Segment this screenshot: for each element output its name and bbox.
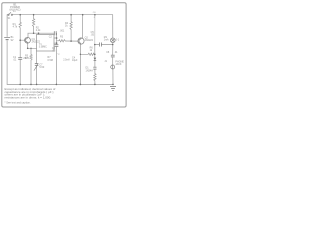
node: Q1 base [19, 39, 21, 41]
wire: Q1 base [20, 39, 24, 41]
node: rail R2 [33, 14, 35, 16]
svg-text:0.5M: 0.5M [48, 59, 53, 62]
wire: R3e emitter resistor column [30, 48, 32, 54]
svg-text:* See text and caption.: * See text and caption. [5, 100, 31, 104]
svg-text:4.7k: 4.7k [13, 26, 18, 29]
node: rail R1 [19, 14, 21, 16]
node: rail Q2 collector [82, 14, 84, 16]
wire: detector column lower [94, 70, 96, 74]
svg-text:9V: 9V [11, 39, 14, 42]
wire: R4 hang from rail [70, 15, 72, 22]
wire: Q2 collector to rail [82, 15, 84, 38]
node: ground rail C3 [56, 84, 58, 86]
wire: left battery loop bottom [6, 41, 8, 85]
wire: R1/C1 column mid [19, 28, 21, 58]
wire: trimmer to ground [36, 66, 38, 85]
node: ground rail C1 [19, 84, 21, 86]
wire: detector column mid [94, 61, 96, 67]
box top pin [38, 33, 40, 34]
resistor R2 [32, 19, 34, 27]
resistor R6 [88, 53, 94, 55]
node: emitter R6 [80, 54, 81, 55]
power label text block [9, 3, 20, 12]
wire: R2 bottom to collector line [33, 27, 35, 34]
battery B1 [4, 38, 10, 40]
resistor R3e (Q1 emitter) [30, 54, 32, 60]
capacitor C3 [54, 45, 58, 47]
capacitor C6 (detector) [93, 67, 96, 69]
wire: R2 hang from rail [33, 15, 35, 19]
wire: right column between C8 and phone [112, 57, 114, 65]
resistor R4 [70, 22, 72, 30]
node: detector R6 join [94, 54, 96, 56]
wire: C3 to ground [55, 47, 57, 85]
wire: right column between lamp and C8 [112, 43, 114, 55]
wire: emitter to R6 [80, 53, 88, 55]
node: ground rail R5 [30, 84, 32, 86]
svg-text:1N34A: 1N34A [86, 69, 94, 72]
wire: left battery loop top [7, 15, 8, 37]
svg-text:3.58MC: 3.58MC [39, 46, 47, 48]
svg-text:2.2k: 2.2k [36, 29, 41, 32]
node: Q1 emitter [27, 48, 29, 50]
wire: box bottom pin to trimmer [36, 51, 38, 63]
wire: box right pin upper [54, 37, 57, 39]
capacitor C5 [99, 43, 101, 47]
node: emitter R5 branch [30, 48, 31, 49]
svg-text:1mA: 1mA [104, 39, 109, 42]
svg-text:470: 470 [25, 57, 30, 60]
node: Q1 collector R2 [33, 32, 35, 34]
wire: box right pin lower [54, 42, 57, 44]
svg-text:resistances are in ohms; k = 1: resistances are in ohms; k = 1,000. [5, 95, 52, 99]
svg-text:2N2222: 2N2222 [85, 39, 94, 42]
wire: Q2 base segment [65, 40, 78, 42]
wire: node vertical right of box [56, 33, 58, 44]
wire: top +V rail [12, 14, 113, 16]
node: Q2 base R4 [70, 40, 72, 42]
wire: R4 bottom to base junction [70, 30, 72, 42]
wire: Q1 emitter down and right to box [28, 43, 37, 48]
resistor R1 [19, 22, 21, 27]
trimmer capacitor C7 [35, 64, 39, 66]
wire: detector column from rail (faint) [94, 15, 96, 45]
capacitor C2 [54, 31, 56, 35]
node: detector output tap [94, 44, 96, 46]
trimmer arrow [34, 64, 38, 70]
caption text block [5, 87, 56, 104]
node: ground rail right end [112, 84, 114, 86]
resistor R3 [59, 40, 66, 42]
ground symbol [110, 87, 116, 91]
node: box top pin [38, 32, 40, 34]
node: box right pin upper [56, 37, 58, 39]
lamp DS1 [111, 38, 116, 43]
wire: output line through C5 [95, 44, 99, 46]
wire: R3 to Q2 base [57, 40, 59, 42]
resistor R8 [94, 74, 96, 81]
node: rail R4 [70, 14, 72, 16]
capacitor C1 [18, 58, 22, 60]
transistor Q2 [78, 38, 84, 44]
capacitor C8 (right column) [111, 55, 115, 57]
node: ground rail trimmer [36, 84, 38, 86]
wire: detector column upper [94, 45, 96, 58]
phone jack J1 [111, 65, 115, 69]
transistor Q1 [25, 37, 31, 43]
svg-text:JACK: JACK [115, 63, 122, 66]
wire: R3e to ground [30, 60, 32, 84]
node: ground rail Q2 emitter [80, 84, 82, 86]
wire: R1/C1 column upper [19, 15, 21, 23]
node: ground rail detector [94, 84, 96, 86]
diode D1 [94, 58, 97, 61]
wire: right column top from rail [112, 15, 114, 38]
wire: bottom ground rail [7, 83, 113, 85]
svg-text:.001: .001 [60, 29, 65, 32]
node: box right pin lower [56, 42, 58, 44]
wire: R6 to detector column [93, 53, 96, 55]
wire: detector column below R8 [94, 81, 96, 85]
wire: output line right of C5 [102, 44, 113, 46]
svg-text:(ALK/NC): (ALK/NC) [9, 8, 20, 12]
switch S1 [8, 12, 13, 15]
crystal box Y1 [37, 35, 55, 52]
svg-text:10µF: 10µF [72, 59, 78, 62]
svg-text:5-50: 5-50 [39, 66, 44, 69]
wire: Q2 emitter down [79, 44, 81, 84]
node: right column output join [112, 44, 114, 46]
svg-text:2.5mV: 2.5mV [63, 59, 70, 61]
border frame [2, 3, 126, 107]
junction dots [19, 14, 113, 85]
wire: C1 to ground [19, 60, 21, 85]
wire: Q1 collector jog [28, 33, 54, 37]
node: rail detector [94, 14, 96, 16]
wire: right column to ground rail [112, 69, 114, 84]
